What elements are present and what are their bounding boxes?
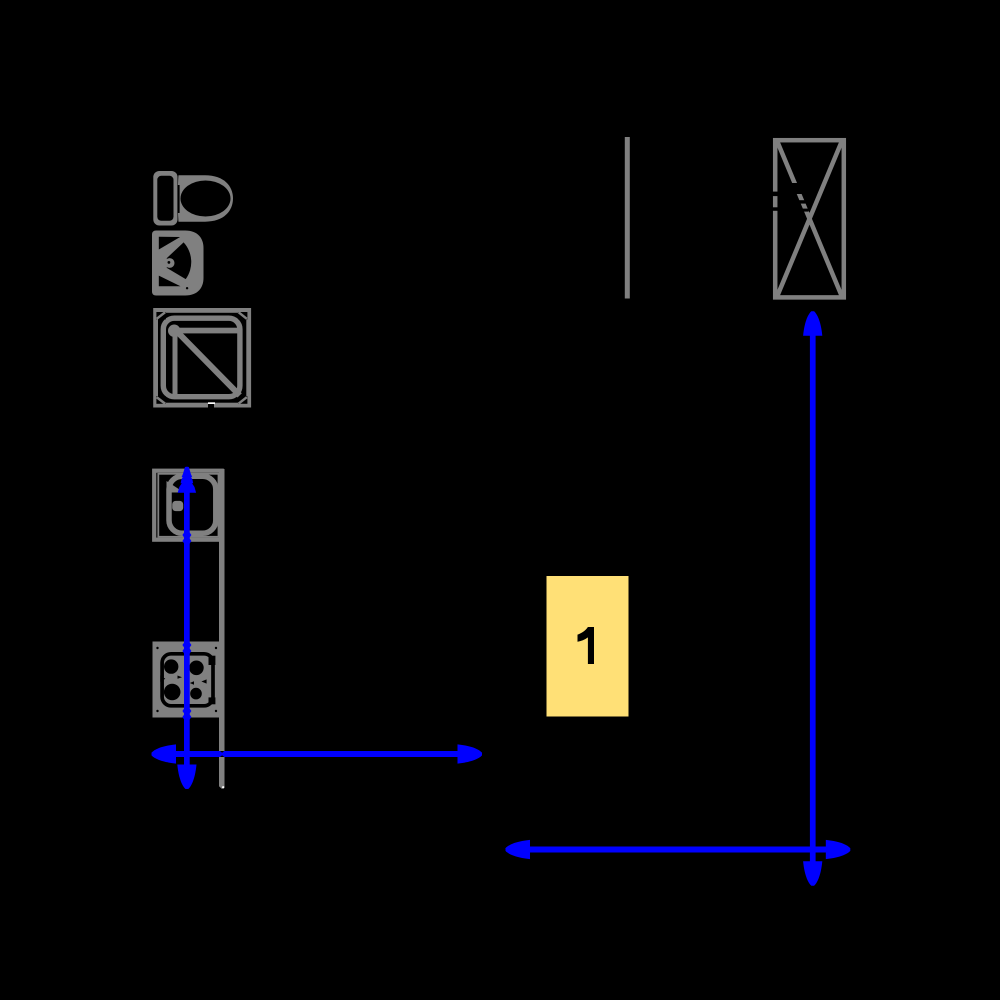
shower [156,310,249,407]
wall segment top [625,137,630,299]
stove [153,642,221,718]
kitchen sink [154,471,222,540]
shaft with X [770,140,844,297]
room label 1 [547,576,629,717]
dimension arrow horizontal bottom [506,840,851,859]
kitchen counter edge [219,469,225,789]
toilet [153,171,233,226]
wash basin [152,231,204,296]
dimension arrow vertical left [177,467,196,789]
dimension arrow horizontal left [152,744,483,763]
dimension arrow vertical right [803,311,822,886]
